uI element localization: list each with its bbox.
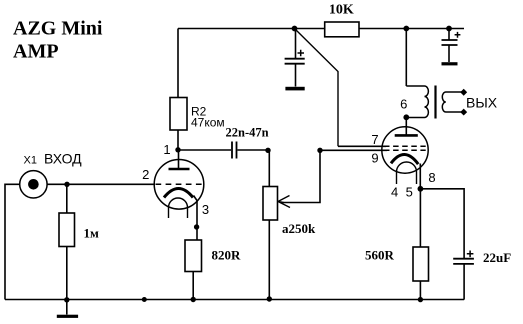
cathode arc V2 bbox=[391, 154, 418, 164]
node top junction at filter cap 1 bbox=[292, 26, 298, 32]
transformer T1 primary winding bbox=[406, 86, 428, 118]
resistor 560R body bbox=[413, 247, 429, 281]
node A junction dot bbox=[265, 148, 270, 153]
capacitor 22uF plates bbox=[453, 259, 474, 264]
svg-text:ВХОД: ВХОД bbox=[44, 150, 82, 166]
grid dashes V2 lower (pin 9) bbox=[384, 149, 426, 151]
wire 560R to rail bbox=[419, 281, 421, 300]
svg-text:AZG Mini: AZG Mini bbox=[13, 18, 103, 40]
node rail to transformer junction dot bbox=[403, 26, 409, 32]
connector X1 input jack bbox=[20, 171, 47, 198]
node rail dot at 1m bbox=[64, 297, 69, 302]
wire 22uF to rail bbox=[463, 264, 465, 300]
wire cathode V2 down bbox=[419, 164, 421, 190]
node rail dot at 820R bbox=[191, 297, 196, 302]
resistor 1м body bbox=[59, 213, 75, 247]
cathode arc V1 bbox=[164, 189, 193, 198]
wire wiper to grid of V2 bbox=[283, 150, 320, 202]
anode plate V2 bbox=[395, 134, 418, 137]
svg-text:10K: 10K bbox=[329, 3, 354, 18]
wire anode V2 bbox=[405, 117, 407, 135]
wire cathode V1 down to 820R bbox=[194, 196, 198, 241]
svg-text:47ком: 47ком bbox=[191, 116, 225, 130]
wire R2 bottom to node 1 bbox=[177, 130, 179, 150]
node wiper corner dot bbox=[317, 148, 322, 153]
wire C2 to ground bar bbox=[295, 64, 297, 87]
ground bar main bbox=[57, 315, 78, 318]
wire C3 to ground bar bbox=[448, 45, 450, 62]
svg-text:1м: 1м bbox=[84, 225, 100, 240]
wire top B+ rail bbox=[178, 28, 464, 30]
node pin1 junction dot bbox=[175, 147, 180, 152]
terminal diamond upper bbox=[460, 89, 467, 96]
svg-text:5: 5 bbox=[406, 185, 413, 200]
wire junction down to filter cap C2 bbox=[295, 29, 297, 59]
wire jack to tube V1 grid bbox=[47, 183, 155, 185]
connector X1 center pin bbox=[28, 179, 39, 190]
resistor 10K body bbox=[325, 22, 359, 37]
ground bar under C2 bbox=[285, 87, 304, 91]
wire wiper node to tube V2 pin 9 bbox=[320, 149, 387, 151]
svg-text:9: 9 bbox=[371, 151, 378, 166]
transformer T1 core bbox=[434, 86, 436, 119]
wire to tube V2 pin 7 bbox=[338, 145, 386, 147]
tube V1 envelope bbox=[154, 160, 204, 210]
wire pot bottom to ground rail bbox=[268, 220, 270, 300]
grid dashes V1 (pin 2) bbox=[156, 183, 204, 185]
node input/1m junction dot bbox=[64, 182, 69, 187]
wire node1 to coupling cap bbox=[178, 149, 231, 151]
svg-text:a250k: a250k bbox=[282, 221, 316, 236]
resistor 820R body bbox=[185, 240, 202, 272]
svg-text:7: 7 bbox=[371, 132, 378, 147]
svg-text:AMP: AMP bbox=[13, 41, 59, 63]
svg-text:6: 6 bbox=[400, 97, 407, 112]
tube V2 envelope bbox=[382, 127, 428, 173]
wire ground stub bbox=[66, 300, 68, 315]
svg-text:820R: 820R bbox=[212, 248, 242, 263]
wire node A down to pot bbox=[268, 150, 270, 187]
node pin3 dot bbox=[194, 224, 199, 229]
node rail dot at pot bbox=[267, 296, 272, 301]
wire 1m to rail bbox=[66, 247, 68, 300]
capacitor 22uF plus sign bbox=[467, 251, 474, 258]
wire junction down to transformer primary bbox=[405, 29, 407, 87]
wire left drop from rail to R2 bbox=[177, 29, 179, 98]
capacitor C1 22n-47n plates bbox=[232, 142, 237, 159]
node cathode junction dot bbox=[418, 186, 424, 192]
svg-text:3: 3 bbox=[202, 202, 209, 217]
anode plate V1 bbox=[169, 168, 190, 171]
wire cathode node to 22uF cap bbox=[420, 189, 464, 259]
wire jack left to ground loop bbox=[5, 184, 20, 299]
wire diagonal from top junction to V2 grid feed bbox=[295, 29, 339, 147]
capacitor C3 plates bbox=[442, 40, 458, 45]
transformer T1 secondary winding bbox=[442, 92, 463, 112]
svg-text:22n-47n: 22n-47n bbox=[226, 126, 269, 140]
capacitor C3 plus sign bbox=[455, 32, 461, 38]
wire node to 1m resistor bbox=[66, 184, 68, 213]
potentiometer wiper arrow bbox=[278, 196, 290, 208]
capacitor C2 plates bbox=[285, 59, 305, 64]
grid dashes V2 upper (pin 7) bbox=[384, 145, 426, 147]
title AZG Mini AMP bbox=[13, 18, 103, 63]
wire ground rail bbox=[5, 299, 464, 301]
wire cap to node A bbox=[238, 149, 269, 151]
svg-text:8: 8 bbox=[428, 170, 435, 185]
potentiometer a250k body bbox=[263, 187, 278, 221]
svg-text:1: 1 bbox=[163, 142, 170, 157]
terminal diamond lower bbox=[460, 109, 467, 116]
svg-text:ВЫХ: ВЫХ bbox=[466, 95, 498, 111]
heater V1 bbox=[169, 198, 188, 218]
ground bar under C3 bbox=[442, 62, 458, 65]
node 560R rail dot bbox=[418, 297, 423, 302]
svg-text:22uF: 22uF bbox=[483, 250, 511, 265]
node rail stray dot bbox=[142, 297, 147, 302]
node transformer/anode junction dot bbox=[403, 114, 409, 120]
wire anode V1 bbox=[178, 150, 180, 169]
wire junction down to filter cap C3 bbox=[448, 29, 450, 41]
resistor R2 body bbox=[170, 98, 187, 131]
svg-text:560R: 560R bbox=[365, 248, 395, 263]
wire cathode node down to 560R bbox=[419, 189, 421, 247]
svg-text:2: 2 bbox=[142, 167, 149, 182]
node rail to filter cap C3 junction dot bbox=[446, 26, 452, 32]
capacitor C2 plus sign bbox=[298, 50, 305, 57]
wire 820R to rail bbox=[192, 272, 194, 300]
heater V2 bbox=[397, 162, 417, 184]
svg-text:X1: X1 bbox=[24, 155, 37, 167]
svg-text:4: 4 bbox=[391, 185, 398, 200]
